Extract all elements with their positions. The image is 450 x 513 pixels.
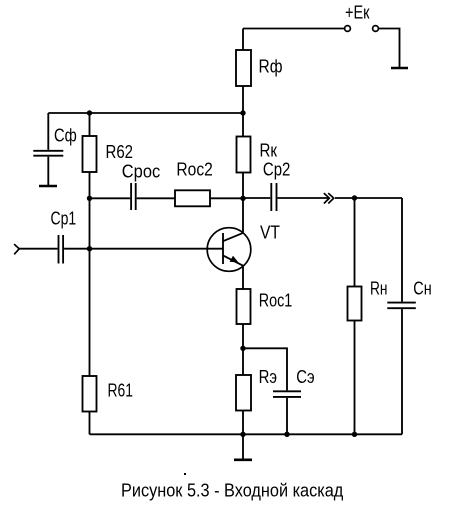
wire input to Ср1 xyxy=(19,248,57,250)
input terminal chevron xyxy=(14,244,19,254)
wire ground stem bottom xyxy=(242,434,244,459)
wire Срос to Roc2 xyxy=(137,197,175,199)
capacitor Сн xyxy=(387,278,431,308)
capacitor Сэ xyxy=(273,367,315,397)
svg-text:Rк: Rк xyxy=(260,140,278,160)
wire node to Сэ branch xyxy=(243,348,287,390)
svg-text:Roc2: Roc2 xyxy=(176,160,212,180)
wire bottom rail xyxy=(90,433,403,435)
wire output node to right corner xyxy=(335,197,402,199)
resistor Rф xyxy=(236,50,251,86)
wire collector node to Ср2 xyxy=(243,197,270,199)
wire Rб1 to bottom rail xyxy=(89,412,91,435)
wire node to Срос xyxy=(90,197,131,199)
wire from right terminal to ground xyxy=(379,29,400,68)
capacitor Сф xyxy=(33,126,77,156)
svg-text:Ср2: Ср2 xyxy=(263,160,291,180)
wire Roc1 to node xyxy=(242,324,244,348)
wire Rб2 to node xyxy=(89,172,91,198)
ground bottom xyxy=(234,458,252,461)
wire Rк to collector node xyxy=(242,173,244,199)
resistor Rэ xyxy=(236,375,251,411)
wire Сф to ground xyxy=(47,157,49,185)
node junction (243,113) xyxy=(240,110,245,115)
wire node to Rб2 xyxy=(89,113,91,136)
svg-text:Срос: Срос xyxy=(122,162,160,182)
node junction (89.5,113) xyxy=(87,110,92,115)
wire Сэ to bottom rail xyxy=(286,398,288,434)
node junction (89.5,198.3) xyxy=(87,196,92,201)
resistor Roc1 xyxy=(237,289,251,324)
wire Ср2 to output arrow xyxy=(278,197,330,199)
node junction (354.5,198) xyxy=(352,195,357,200)
wire top-left horizontal xyxy=(48,112,243,114)
capacitor Срос xyxy=(122,162,160,211)
wire emitter lead xyxy=(242,265,244,289)
node junction (354.5,434.3) xyxy=(352,432,357,437)
wire Сн to bottom rail xyxy=(401,309,403,434)
svg-text:+Ек: +Ек xyxy=(345,3,370,23)
wire collector lead xyxy=(242,198,244,233)
terminal circle right of switch xyxy=(373,26,379,32)
wire collector column top xyxy=(242,29,244,51)
svg-text:VT: VT xyxy=(260,222,280,242)
svg-text:Roc1: Roc1 xyxy=(259,290,293,310)
wire bias column (89.5) down xyxy=(89,198,91,376)
wire Rн branch down xyxy=(354,198,356,287)
wire Rэ to bottom rail xyxy=(242,411,244,435)
svg-text:Ср1: Ср1 xyxy=(51,208,77,228)
ground under Сф xyxy=(39,185,57,188)
node junction (243,434.3) xyxy=(240,432,245,437)
wire node to Rэ xyxy=(242,348,244,375)
output arrow >> xyxy=(324,193,334,203)
resistor Rн xyxy=(348,287,362,321)
node junction (89.5,248.7) xyxy=(87,246,92,251)
svg-text:Сэ: Сэ xyxy=(296,367,314,387)
wire Rн to bottom rail xyxy=(354,321,356,435)
node junction (243,348.3) xyxy=(240,346,245,351)
node junction (287,434.3) xyxy=(284,432,289,437)
wire Roc2 to collector node xyxy=(210,197,243,199)
svg-text:Рисунок 5.3 - Входной каскад: Рисунок 5.3 - Входной каскад xyxy=(121,480,344,500)
capacitor Ср2 xyxy=(263,160,291,211)
resistor Rб1 (R61) xyxy=(83,376,97,412)
wire to Сф xyxy=(47,113,49,150)
transistor VT (NPN) xyxy=(207,222,280,271)
node junction (243,198.3) xyxy=(240,196,245,201)
wire Сн branch down xyxy=(401,198,403,302)
svg-text:Сн: Сн xyxy=(413,278,431,298)
svg-text:Rф: Rф xyxy=(259,57,283,77)
terminal circle left of switch xyxy=(345,26,351,32)
capacitor Ср1 xyxy=(51,208,77,263)
svg-text:R62: R62 xyxy=(106,142,134,162)
svg-text:Сф: Сф xyxy=(54,126,77,146)
svg-text:Rэ: Rэ xyxy=(259,367,277,387)
wire top supply xyxy=(243,28,344,30)
stray dot xyxy=(184,473,186,475)
wire Ср1 to base xyxy=(64,248,223,250)
resistor Rб2 (R62) xyxy=(83,136,97,172)
ground top right xyxy=(391,67,408,70)
resistor Rк xyxy=(237,137,251,173)
resistor Roc2 xyxy=(175,190,210,206)
svg-text:Rн: Rн xyxy=(370,278,388,298)
svg-text:R61: R61 xyxy=(108,381,134,401)
wire Rф to node xyxy=(242,86,244,137)
